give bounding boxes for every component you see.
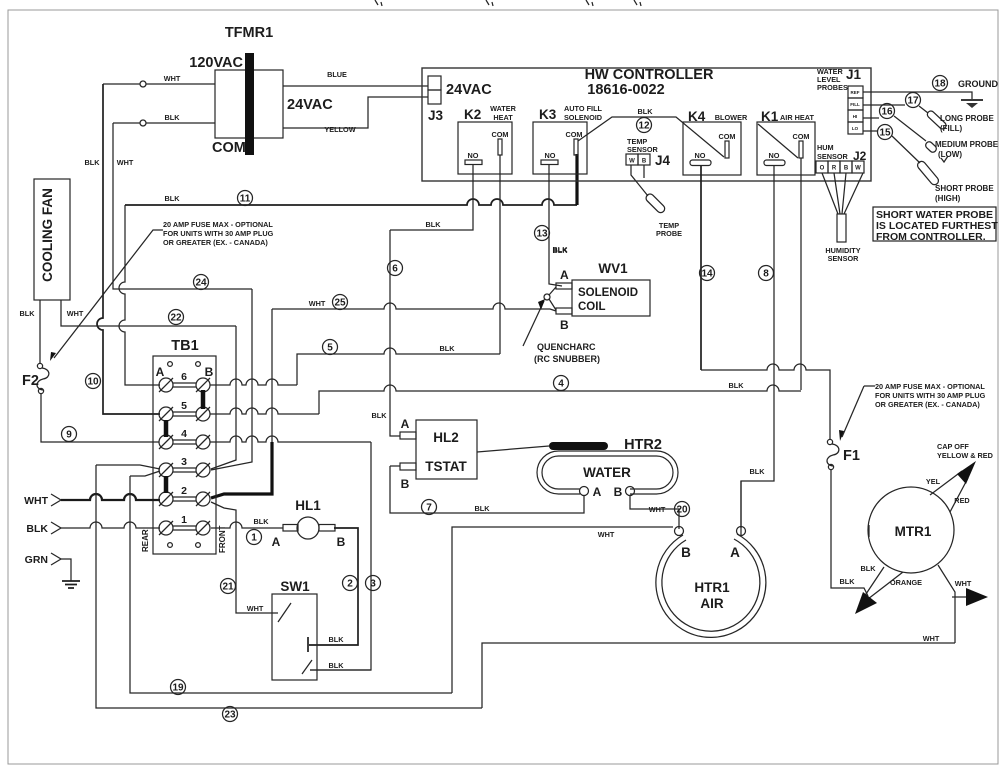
svg-text:6: 6 — [181, 371, 187, 383]
svg-text:WHT: WHT — [117, 158, 134, 167]
svg-text:2: 2 — [347, 579, 353, 590]
svg-text:K4: K4 — [688, 109, 706, 124]
svg-text:TB1: TB1 — [171, 338, 198, 354]
svg-text:COM: COM — [491, 130, 508, 139]
svg-text:AIR: AIR — [700, 596, 724, 611]
svg-text:B: B — [337, 535, 346, 549]
svg-text:HTR1: HTR1 — [694, 580, 730, 595]
svg-text:NO: NO — [468, 151, 479, 160]
svg-text:1: 1 — [251, 533, 257, 544]
svg-text:FOR UNITS WITH 30 AMP PLUG: FOR UNITS WITH 30 AMP PLUG — [875, 391, 986, 400]
svg-text:24VAC: 24VAC — [287, 97, 333, 113]
svg-text:20 AMP FUSE MAX - OPTIONAL: 20 AMP FUSE MAX - OPTIONAL — [163, 220, 273, 229]
svg-text:NO: NO — [769, 151, 780, 160]
svg-text:YEL: YEL — [926, 477, 941, 486]
svg-text:COIL: COIL — [578, 301, 605, 313]
svg-text:NO: NO — [545, 151, 556, 160]
svg-text:B: B — [681, 545, 691, 560]
svg-text:7: 7 — [426, 503, 432, 514]
svg-text:B: B — [614, 485, 623, 499]
svg-text:AIR HEAT: AIR HEAT — [780, 113, 814, 122]
svg-text:HEAT: HEAT — [493, 113, 513, 122]
svg-text:R: R — [832, 166, 837, 172]
svg-text:B: B — [642, 159, 647, 165]
svg-text:FROM CONTROLLER.: FROM CONTROLLER. — [876, 231, 986, 243]
svg-text:23: 23 — [224, 710, 236, 721]
svg-text:B: B — [560, 318, 569, 332]
svg-text:22: 22 — [170, 313, 182, 324]
svg-text:K3: K3 — [539, 107, 557, 122]
svg-text:COOLING FAN: COOLING FAN — [40, 188, 55, 282]
svg-text:OR GREATER (EX. - CANADA): OR GREATER (EX. - CANADA) — [875, 400, 980, 409]
svg-text:COM: COM — [565, 130, 582, 139]
svg-text:SENSOR: SENSOR — [627, 145, 659, 154]
svg-text:1: 1 — [181, 514, 187, 526]
svg-text:21: 21 — [222, 582, 234, 593]
svg-text:SOLENOID: SOLENOID — [578, 287, 638, 299]
svg-text:BLK: BLK — [638, 107, 654, 116]
svg-text:F1: F1 — [843, 448, 860, 464]
svg-text:AUTO FILL: AUTO FILL — [564, 104, 603, 113]
svg-text:FOR UNITS WITH 30 AMP PLUG: FOR UNITS WITH 30 AMP PLUG — [163, 229, 274, 238]
svg-text:CAP OFF: CAP OFF — [937, 442, 969, 451]
svg-text:BLK: BLK — [553, 245, 569, 254]
svg-text:WHT: WHT — [24, 495, 48, 507]
svg-text:WHT: WHT — [247, 604, 264, 613]
svg-text:WHT: WHT — [649, 505, 666, 514]
svg-text:A: A — [272, 535, 281, 549]
svg-text:WHT: WHT — [164, 74, 181, 83]
svg-text:OR GREATER (EX. - CANADA): OR GREATER (EX. - CANADA) — [163, 238, 268, 247]
svg-text:24VAC: 24VAC — [446, 82, 492, 98]
svg-text:5: 5 — [181, 400, 187, 412]
svg-text:MEDIUM PROBE: MEDIUM PROBE — [935, 140, 999, 149]
svg-text:18: 18 — [934, 79, 946, 90]
svg-text:4: 4 — [181, 428, 187, 440]
svg-text:LO: LO — [852, 126, 859, 131]
svg-text:BLUE: BLUE — [327, 70, 347, 79]
svg-text:HL1: HL1 — [295, 498, 321, 513]
svg-text:20: 20 — [676, 505, 688, 516]
svg-text:A: A — [560, 268, 569, 282]
svg-text:ORANGE: ORANGE — [890, 578, 922, 587]
svg-text:(FILL): (FILL) — [940, 124, 963, 133]
svg-text:A: A — [401, 417, 410, 431]
svg-text:K1: K1 — [761, 109, 779, 124]
svg-text:BLK: BLK — [426, 220, 442, 229]
svg-text:(RC SNUBBER): (RC SNUBBER) — [534, 354, 600, 364]
svg-text:SENSOR: SENSOR — [817, 152, 849, 161]
svg-text:BLK: BLK — [440, 344, 456, 353]
svg-text:BLK: BLK — [26, 523, 48, 535]
svg-text:5: 5 — [327, 343, 333, 354]
svg-text:COM: COM — [792, 132, 809, 141]
svg-text:SENSOR: SENSOR — [828, 254, 860, 263]
svg-text:BLK: BLK — [85, 158, 101, 167]
svg-text:QUENCHARC: QUENCHARC — [537, 342, 596, 352]
svg-text:J1: J1 — [846, 67, 862, 82]
svg-text:BLK: BLK — [329, 635, 345, 644]
svg-text:18616-0022: 18616-0022 — [587, 82, 664, 98]
svg-text:19: 19 — [172, 683, 184, 694]
svg-text:3: 3 — [370, 579, 376, 590]
svg-text:WATER: WATER — [583, 465, 631, 480]
svg-text:BLK: BLK — [372, 411, 388, 420]
svg-text:11: 11 — [240, 194, 251, 205]
svg-text:HL2: HL2 — [433, 430, 459, 445]
svg-text:BLK: BLK — [861, 564, 877, 573]
svg-text:WATER: WATER — [490, 104, 517, 113]
svg-text:A: A — [156, 365, 165, 379]
svg-text:SW1: SW1 — [280, 579, 310, 594]
svg-text:4: 4 — [558, 379, 564, 390]
svg-text:W: W — [629, 159, 635, 165]
svg-text:(LOW): (LOW) — [938, 150, 962, 159]
svg-text:HTR2: HTR2 — [624, 437, 662, 453]
svg-text:YELLOW: YELLOW — [324, 125, 355, 134]
svg-text:F2: F2 — [22, 373, 39, 389]
svg-text:2: 2 — [181, 485, 187, 497]
svg-text:15: 15 — [879, 128, 891, 139]
svg-text:SHORT PROBE: SHORT PROBE — [935, 184, 994, 193]
svg-text:WHT: WHT — [67, 309, 84, 318]
svg-text:YELLOW & RED: YELLOW & RED — [937, 451, 993, 460]
svg-text:B: B — [401, 477, 410, 491]
svg-text:HUM: HUM — [817, 143, 834, 152]
svg-text:NO: NO — [695, 151, 706, 160]
svg-text:J3: J3 — [428, 108, 444, 123]
svg-text:BLK: BLK — [20, 309, 36, 318]
svg-text:A: A — [730, 545, 740, 560]
svg-text:REF: REF — [851, 90, 860, 95]
svg-text:FRONT: FRONT — [218, 525, 227, 553]
svg-text:MTR1: MTR1 — [895, 524, 932, 539]
svg-text:PROBES: PROBES — [817, 83, 848, 92]
svg-text:BLK: BLK — [475, 504, 491, 513]
svg-text:B: B — [205, 365, 214, 379]
svg-text:A: A — [593, 485, 602, 499]
svg-text:17: 17 — [907, 96, 919, 107]
svg-text:K2: K2 — [464, 107, 481, 122]
svg-text:GROUND: GROUND — [958, 79, 998, 89]
svg-text:WHT: WHT — [309, 299, 326, 308]
svg-text:W: W — [855, 166, 861, 172]
svg-text:COM: COM — [212, 140, 246, 156]
svg-text:BLK: BLK — [750, 467, 766, 476]
svg-text:HW CONTROLLER: HW CONTROLLER — [585, 67, 714, 83]
svg-text:B: B — [844, 166, 849, 172]
svg-text:20 AMP FUSE MAX - OPTIONAL: 20 AMP FUSE MAX - OPTIONAL — [875, 382, 985, 391]
svg-text:WV1: WV1 — [598, 261, 628, 276]
svg-text:J4: J4 — [655, 153, 671, 168]
svg-text:GRN: GRN — [25, 554, 48, 566]
svg-text:3: 3 — [181, 456, 187, 468]
svg-text:REAR: REAR — [141, 529, 150, 552]
svg-text:16: 16 — [881, 107, 893, 118]
svg-text:LONG PROBE: LONG PROBE — [940, 114, 994, 123]
svg-text:WHT: WHT — [923, 634, 940, 643]
svg-text:12: 12 — [638, 121, 650, 132]
svg-text:SOLENOID: SOLENOID — [564, 113, 602, 122]
svg-text:TFMR1: TFMR1 — [225, 25, 273, 41]
svg-text:COM: COM — [718, 132, 735, 141]
svg-text:WHT: WHT — [598, 530, 615, 539]
svg-text:BLK: BLK — [165, 194, 181, 203]
svg-text:WHT: WHT — [955, 579, 972, 588]
svg-text:(HIGH): (HIGH) — [935, 194, 961, 203]
svg-text:BLK: BLK — [165, 113, 181, 122]
svg-text:13: 13 — [536, 229, 548, 240]
svg-text:O: O — [820, 166, 825, 172]
svg-text:10: 10 — [87, 377, 99, 388]
svg-text:25: 25 — [334, 298, 346, 309]
svg-text:PROBE: PROBE — [656, 229, 682, 238]
svg-text:HI: HI — [853, 114, 858, 119]
svg-text:TSTAT: TSTAT — [425, 459, 467, 474]
svg-text:BLK: BLK — [840, 577, 856, 586]
svg-text:14: 14 — [701, 269, 713, 280]
svg-text:BLOWER: BLOWER — [715, 113, 748, 122]
svg-text:9: 9 — [66, 430, 72, 441]
svg-text:FILL: FILL — [850, 102, 860, 107]
svg-text:BLK: BLK — [729, 381, 745, 390]
svg-text:8: 8 — [763, 269, 769, 280]
svg-text:RED: RED — [954, 496, 969, 505]
svg-text:BLK: BLK — [329, 661, 345, 670]
svg-text:6: 6 — [392, 264, 398, 275]
svg-text:24: 24 — [195, 278, 207, 289]
svg-text:120VAC: 120VAC — [189, 55, 243, 71]
svg-text:BLK: BLK — [254, 517, 270, 526]
